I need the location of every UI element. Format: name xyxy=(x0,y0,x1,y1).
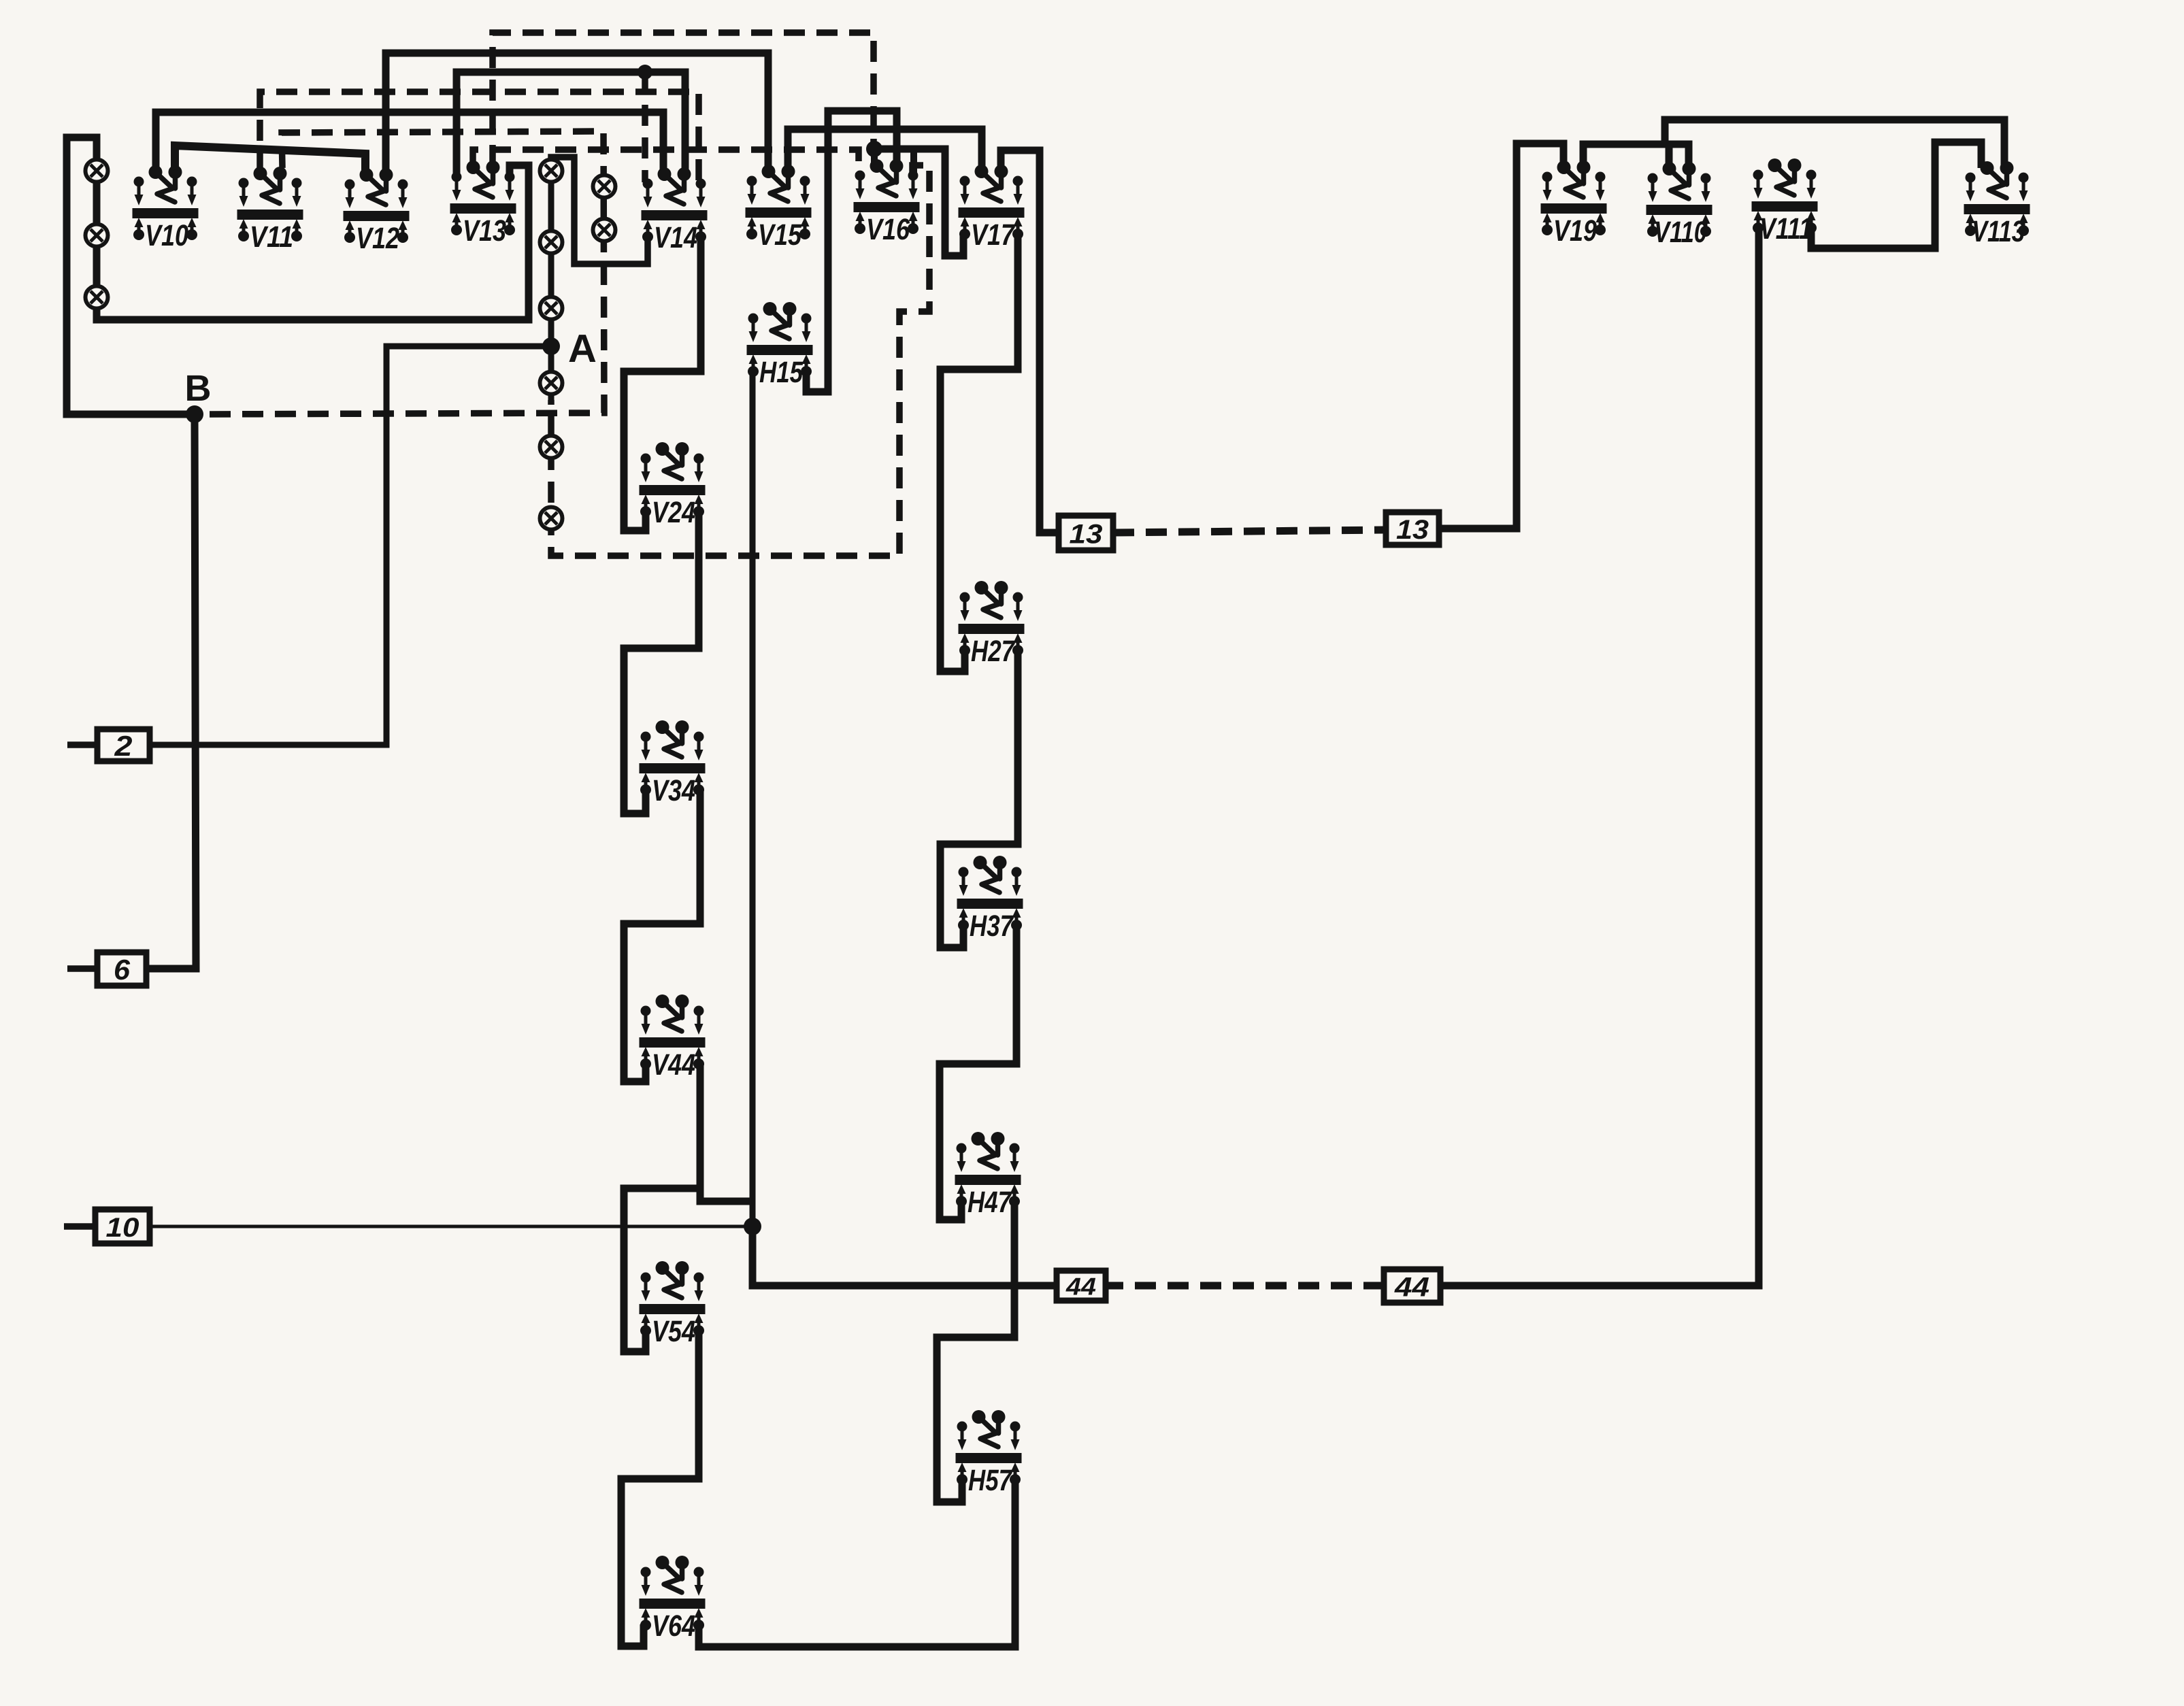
svg-text:6: 6 xyxy=(114,954,131,986)
svg-text:10: 10 xyxy=(106,1213,139,1243)
svg-text:H27: H27 xyxy=(971,635,1016,668)
svg-text:V16: V16 xyxy=(866,213,910,246)
svg-text:A: A xyxy=(568,327,597,371)
svg-text:2: 2 xyxy=(114,730,132,762)
svg-text:H47: H47 xyxy=(967,1186,1012,1219)
svg-text:V64: V64 xyxy=(652,1609,695,1643)
svg-text:V54: V54 xyxy=(652,1315,695,1348)
svg-text:V11: V11 xyxy=(250,220,293,254)
svg-text:V110: V110 xyxy=(1654,216,1707,249)
svg-text:13: 13 xyxy=(1396,515,1429,545)
svg-text:V111: V111 xyxy=(1759,212,1813,246)
svg-text:V44: V44 xyxy=(652,1048,695,1082)
svg-text:V34: V34 xyxy=(652,774,695,807)
svg-text:44: 44 xyxy=(1065,1272,1096,1300)
svg-text:V12: V12 xyxy=(356,222,399,255)
svg-text:H57: H57 xyxy=(968,1464,1013,1497)
svg-text:V113: V113 xyxy=(1972,215,2025,248)
svg-text:B: B xyxy=(185,368,212,409)
svg-text:V15: V15 xyxy=(758,218,801,252)
svg-text:13: 13 xyxy=(1070,519,1103,549)
svg-text:44: 44 xyxy=(1394,1272,1429,1302)
svg-text:V19: V19 xyxy=(1553,214,1597,248)
svg-text:V13: V13 xyxy=(463,214,506,248)
svg-text:H37: H37 xyxy=(970,909,1014,943)
svg-text:H15: H15 xyxy=(759,356,803,389)
svg-text:V24: V24 xyxy=(652,496,695,529)
svg-text:V10: V10 xyxy=(145,219,188,252)
svg-text:V14: V14 xyxy=(654,221,697,254)
svg-text:V17: V17 xyxy=(971,218,1016,252)
